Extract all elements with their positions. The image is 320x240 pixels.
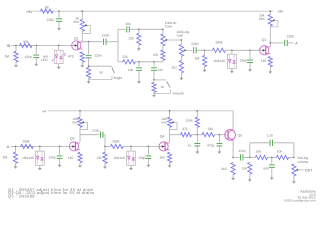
svg-text:2.2n: 2.2n [267,134,274,138]
svg-text:+9V: +9V [26,10,33,14]
svg-text:220n: 220n [191,42,199,46]
svg-text:22k: 22k [122,55,128,59]
svg-text:100k: 100k [22,140,30,144]
svg-text:68n: 68n [263,167,269,171]
svg-text:470: 470 [68,55,74,59]
svg-text:220n: 220n [95,53,103,57]
svg-text:1M: 1M [2,156,7,160]
svg-text:220n: 220n [238,149,246,153]
svg-text:1M: 1M [97,156,102,160]
svg-text:150p: 150p [24,55,32,59]
svg-text:33k: 33k [23,40,29,44]
svg-text:22n: 22n [158,68,164,72]
svg-text:trim: trim [259,17,265,21]
svg-text:47k: 47k [153,53,159,57]
svg-text:Smooth: Smooth [173,92,185,96]
svg-text:1N4148: 1N4148 [22,156,34,160]
svg-text:trim: trim [161,121,167,125]
svg-text:100k: 100k [112,140,120,144]
svg-text:220n: 220n [287,34,295,38]
svg-text:Tone: Tone [165,25,172,29]
svg-text:IN: IN [7,44,11,48]
svg-text:Bright: Bright [114,76,123,80]
svg-text:trim: trim [73,121,79,125]
svg-text:150p: 150p [138,156,146,160]
svg-text:1k: 1k [161,85,165,89]
svg-text:10n: 10n [128,68,134,72]
svg-text:100k: 100k [215,41,223,45]
svg-text:33k: 33k [208,127,214,131]
svg-text:Q5: Q5 [238,134,243,138]
svg-text:220n: 220n [102,34,110,38]
svg-text:220u: 220u [46,18,54,22]
svg-text:1M: 1M [195,57,200,61]
svg-text:1k5: 1k5 [261,59,266,63]
svg-text:10k: 10k [242,167,248,171]
svg-text:Q4: Q4 [160,135,165,139]
svg-text:22k: 22k [129,36,135,40]
svg-text:Volume: Volume [297,160,308,164]
svg-text:1N4148: 1N4148 [113,156,125,160]
svg-text:OUT: OUT [305,168,313,172]
svg-text:10k: 10k [277,150,283,154]
svg-text:LED: LED [41,58,48,62]
svg-text:©2012 runoffgroove.com: ©2012 runoffgroove.com [284,199,316,203]
svg-text:150p: 150p [48,156,56,160]
svg-text:10k: 10k [256,150,262,154]
svg-text:Q1: Q1 [74,36,79,40]
svg-text:2k2: 2k2 [172,65,177,69]
svg-text:1k5: 1k5 [68,156,73,160]
svg-text:trim: trim [74,20,80,24]
svg-text:150p: 150p [240,59,248,63]
svg-text:+9V: +9V [277,10,284,14]
svg-text:1k5: 1k5 [159,155,164,159]
svg-text:Q3: Q3 [70,137,75,141]
svg-text:470p: 470p [207,143,215,147]
svg-text:47k: 47k [182,127,188,131]
svg-text:220n: 220n [92,129,100,133]
svg-text:10n: 10n [125,22,131,26]
svg-text:3k3: 3k3 [221,167,226,171]
svg-text:+V: +V [42,110,47,114]
svg-text:Sust: Sust [177,34,184,38]
svg-text:1N4148: 1N4148 [213,59,225,63]
svg-text:68: 68 [45,6,49,10]
svg-text:100k: 100k [186,118,194,122]
svg-text:Q5 : 2N5088: Q5 : 2N5088 [8,193,35,198]
svg-text:1n: 1n [188,143,192,147]
svg-text:Q2: Q2 [262,38,267,42]
svg-text:1M: 1M [4,55,9,59]
